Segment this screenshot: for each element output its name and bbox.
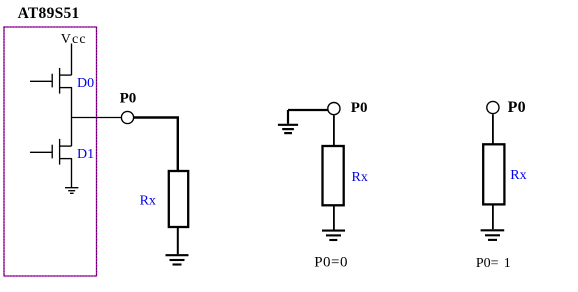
svg-text:D0: D0 — [77, 76, 94, 91]
svg-text:Rx: Rx — [140, 194, 156, 209]
svg-text:AT89S51: AT89S51 — [18, 5, 80, 22]
svg-text:D1: D1 — [77, 147, 94, 162]
svg-text:P0: P0 — [508, 99, 526, 116]
svg-text:Rx: Rx — [510, 168, 526, 183]
svg-text:Rx: Rx — [352, 170, 368, 185]
svg-text:P0=: P0= — [476, 256, 499, 271]
svg-text:P0: P0 — [120, 91, 137, 107]
svg-text:1: 1 — [504, 256, 511, 271]
svg-text:Vcc: Vcc — [61, 32, 87, 47]
svg-text:P0: P0 — [351, 100, 368, 116]
svg-text:P0=0: P0=0 — [314, 255, 348, 271]
